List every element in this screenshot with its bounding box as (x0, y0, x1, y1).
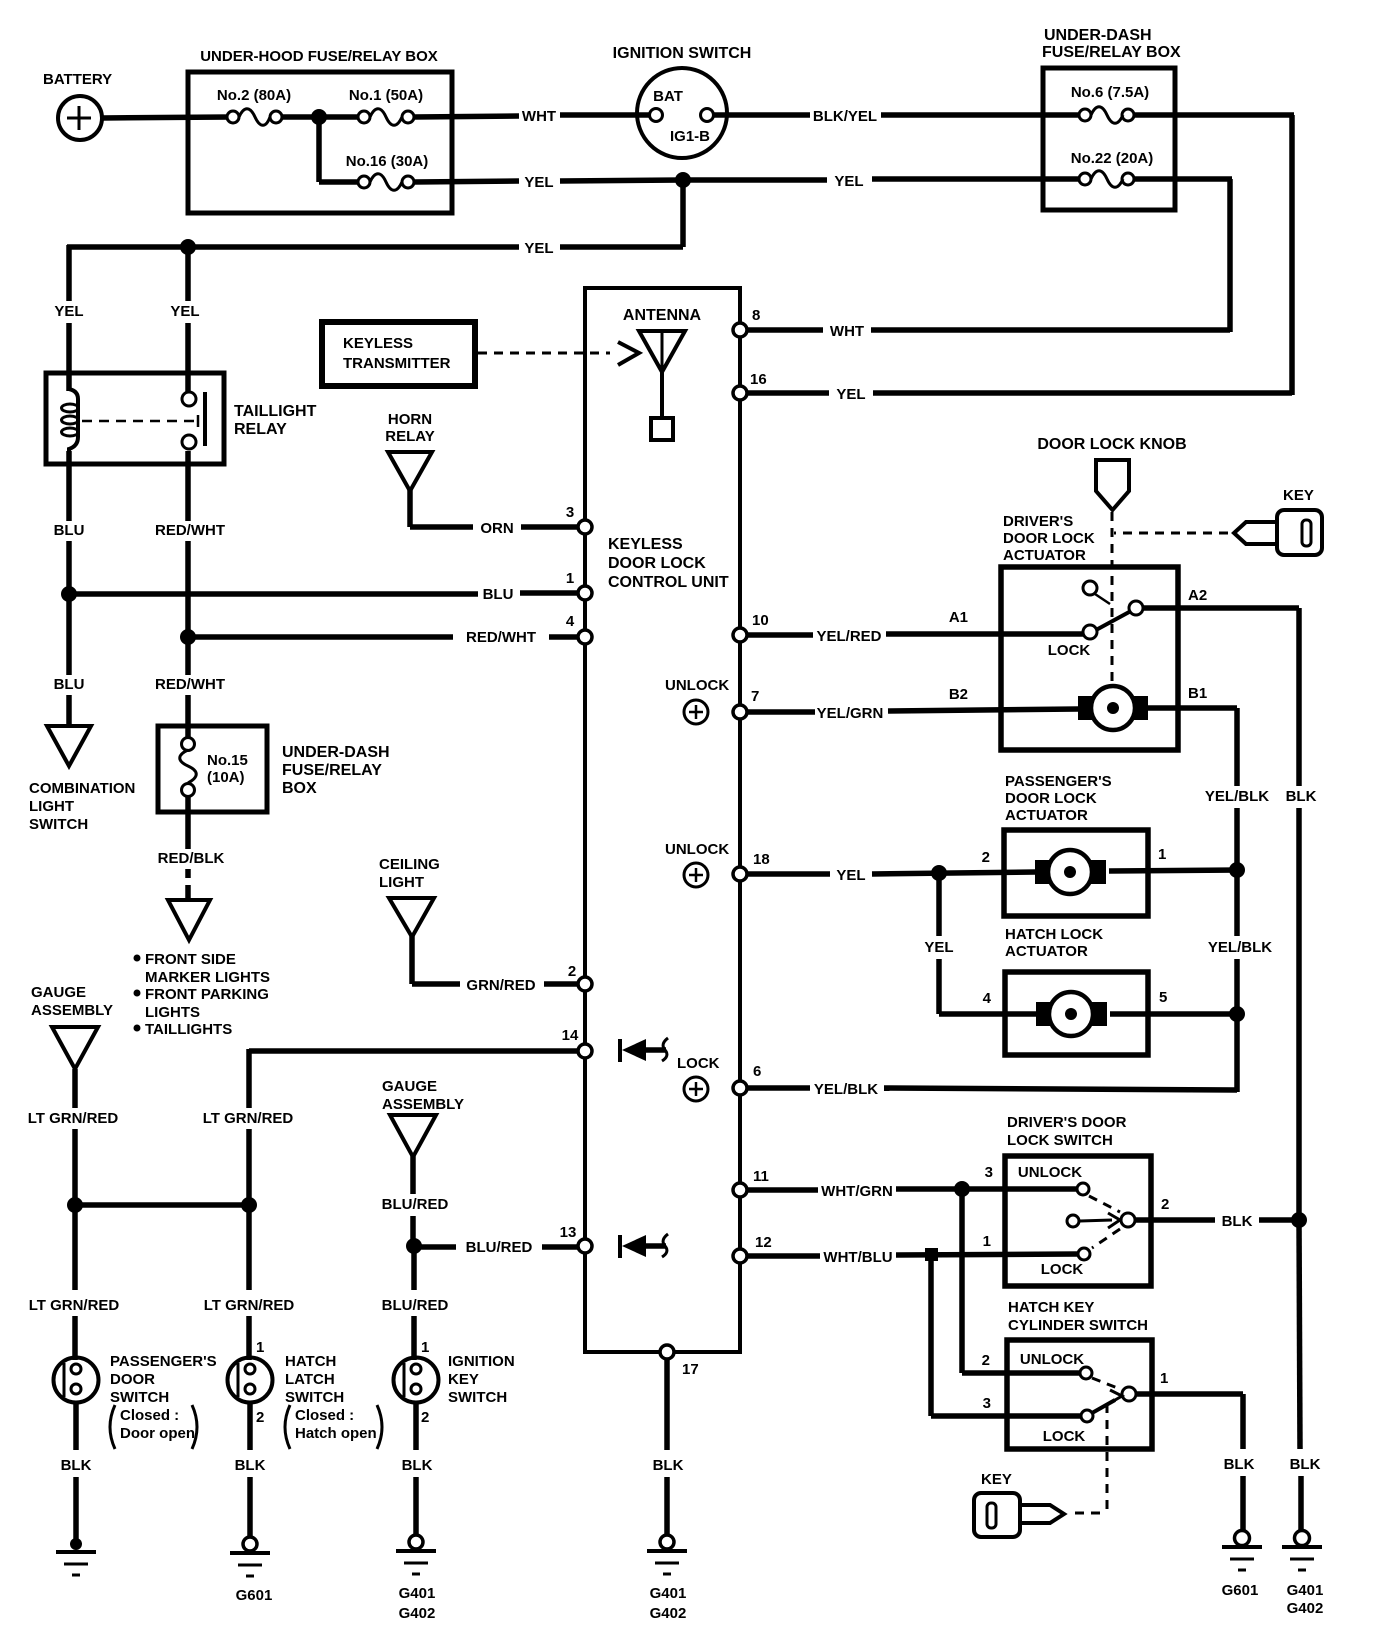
svg-text:UNDER-DASH: UNDER-DASH (282, 744, 390, 761)
unlock symbol lower (665, 841, 729, 887)
wire RED/WHT relay to junction (155, 451, 225, 639)
svg-text:1: 1 (1160, 1370, 1168, 1387)
under-dash fuse/relay box No.15 (158, 726, 390, 812)
svg-text:BLK: BLK (1290, 1456, 1321, 1473)
svg-text:CONTROL UNIT: CONTROL UNIT (608, 574, 729, 591)
svg-text:BLK/YEL: BLK/YEL (813, 108, 877, 125)
svg-text:YEL/RED: YEL/RED (816, 628, 881, 645)
svg-text:(10A): (10A) (207, 769, 245, 786)
svg-text:Door open: Door open (120, 1425, 195, 1442)
wire passenger actuator pin 1 to YEL/BLK vertical (1109, 870, 1240, 871)
svg-text:LOCK: LOCK (677, 1055, 720, 1072)
motor driver's door lock (1078, 686, 1148, 730)
fuse No.15 (180, 738, 197, 797)
svg-text:DRIVER'S DOOR: DRIVER'S DOOR (1007, 1114, 1127, 1131)
svg-text:CEILING: CEILING (379, 856, 440, 873)
antenna (623, 307, 702, 440)
wire YEL down to taillight relay contact (170, 247, 199, 392)
svg-text:2: 2 (421, 1409, 429, 1426)
svg-text:8: 8 (752, 307, 760, 324)
svg-text:4: 4 (566, 613, 575, 630)
keyless transmitter (322, 322, 475, 386)
unlock symbol upper (665, 677, 729, 724)
wire riser WHT/GRN to hatch key switch unlock (962, 1189, 1080, 1373)
svg-text:UNLOCK: UNLOCK (665, 677, 729, 694)
svg-text:RELAY: RELAY (385, 428, 434, 445)
wire YEL junction down and left (67, 180, 683, 257)
wire BLU to pin 1 (69, 586, 578, 603)
svg-text:KEY: KEY (1283, 487, 1314, 504)
svg-text:YEL: YEL (54, 303, 83, 320)
svg-text:GAUGE: GAUGE (31, 984, 86, 1001)
svg-text:10: 10 (752, 612, 769, 629)
ceiling light (379, 856, 440, 937)
svg-text:No.2 (80A): No.2 (80A) (217, 87, 291, 104)
node left junction (67, 1197, 83, 1213)
svg-text:YEL: YEL (924, 939, 953, 956)
node junction under-hood (311, 109, 327, 125)
ground passenger door switch (56, 1538, 96, 1575)
pin 13 (560, 1224, 592, 1253)
svg-text:BLK: BLK (1286, 788, 1317, 805)
pin 6 (733, 1063, 761, 1095)
wire WHT fuse1 to ignition switch (414, 108, 650, 125)
wire YEL branch down to hatch actuator (924, 873, 1036, 1014)
svg-text:BLU/RED: BLU/RED (466, 1239, 533, 1256)
node BLU junction (61, 586, 77, 602)
svg-text:LT GRN/RED: LT GRN/RED (29, 1297, 120, 1314)
fuse No.2 (80A) (217, 87, 291, 125)
svg-text:CYLINDER SWITCH: CYLINDER SWITCH (1008, 1317, 1148, 1334)
svg-text:KEY: KEY (448, 1371, 479, 1388)
svg-text:LIGHT: LIGHT (379, 874, 424, 891)
wire GRN/RED ceiling light to pin 2 (412, 935, 578, 994)
svg-text:TRANSMITTER: TRANSMITTER (343, 355, 451, 372)
svg-text:No.6 (7.5A): No.6 (7.5A) (1071, 84, 1149, 101)
svg-text:LOCK: LOCK (1041, 1261, 1084, 1278)
node right junction (241, 1197, 257, 1213)
svg-text:G401: G401 (399, 1585, 436, 1602)
wire BLK hatch latch to ground (235, 1403, 266, 1537)
svg-text:WHT: WHT (830, 323, 864, 340)
svg-text:A1: A1 (949, 609, 968, 626)
ground G401 G402 pin 17 (647, 1535, 687, 1622)
svg-text:3: 3 (566, 504, 574, 521)
svg-text:FUSE/RELAY: FUSE/RELAY (282, 762, 382, 779)
svg-text:RED/WHT: RED/WHT (155, 522, 225, 539)
svg-text:5: 5 (1159, 989, 1167, 1006)
svg-text:BLK: BLK (402, 1457, 433, 1474)
svg-text:LT GRN/RED: LT GRN/RED (28, 1110, 119, 1127)
dashed link key cylinder to key (1070, 1404, 1107, 1513)
svg-text:TAILLIGHT: TAILLIGHT (234, 403, 317, 420)
hatch key cylinder switch (982, 1299, 1169, 1449)
wire to pin 14 (249, 1048, 578, 1054)
lock symbol (677, 1055, 720, 1101)
wire BLK/YEL ignition to under-dash box (713, 108, 1079, 125)
svg-text:IG1-B: IG1-B (670, 128, 710, 145)
wire hatch actuator pin 5 to YEL/BLK vertical (1110, 1011, 1240, 1017)
svg-text:BATTERY: BATTERY (43, 71, 112, 88)
wire RED/WHT to pin 4 (188, 629, 578, 646)
pin 12 (733, 1234, 772, 1263)
svg-text:2: 2 (568, 963, 576, 980)
wire fuse22 down to pin 8 WHT (747, 179, 1232, 340)
wire YEL fuse16 to right (414, 173, 1079, 191)
svg-text:KEYLESS: KEYLESS (343, 335, 413, 352)
svg-text:BLK: BLK (1224, 1456, 1255, 1473)
svg-text:G401: G401 (650, 1585, 687, 1602)
svg-text:2: 2 (982, 1352, 990, 1369)
svg-text:LOCK: LOCK (1048, 642, 1091, 659)
svg-text:ACTUATOR: ACTUATOR (1005, 807, 1088, 824)
svg-text:11: 11 (753, 1168, 769, 1185)
pin 18 (733, 851, 770, 881)
svg-text:HATCH: HATCH (285, 1353, 336, 1370)
svg-text:G402: G402 (399, 1605, 436, 1622)
dashed link knob to actuator motor (1111, 512, 1114, 702)
svg-text:DOOR LOCK: DOOR LOCK (1005, 790, 1097, 807)
door lock knob (1037, 436, 1186, 510)
svg-text:BLU/RED: BLU/RED (382, 1297, 449, 1314)
svg-text:BLU/RED: BLU/RED (382, 1196, 449, 1213)
wire riser WHT/BLU to hatch key switch lock (931, 1254, 1081, 1416)
motor hatch lock (1036, 992, 1107, 1036)
svg-text:LT GRN/RED: LT GRN/RED (203, 1110, 294, 1127)
svg-text:G402: G402 (650, 1605, 687, 1622)
pin 11 (733, 1168, 769, 1197)
svg-text:BLK: BLK (1222, 1213, 1253, 1230)
wire fuse2 to node (282, 114, 319, 120)
svg-text:FRONT SIDE: FRONT SIDE (145, 951, 236, 968)
wire junction bar (75, 1202, 249, 1208)
svg-text:KEYLESS: KEYLESS (608, 536, 683, 553)
ground G401 G402 right (1282, 1531, 1323, 1618)
svg-text:UNDER-HOOD FUSE/RELAY BOX: UNDER-HOOD FUSE/RELAY BOX (200, 48, 438, 65)
svg-text:YEL: YEL (170, 303, 199, 320)
svg-text:1: 1 (1158, 846, 1166, 863)
svg-text:ACTUATOR: ACTUATOR (1005, 943, 1088, 960)
ignition key switch (394, 1339, 515, 1426)
svg-text:HORN: HORN (388, 411, 432, 428)
svg-text:No.1 (50A): No.1 (50A) (349, 87, 423, 104)
wire RED/BLK to lights arrow (158, 796, 225, 898)
wire A2 to BLK vertical (1143, 608, 1317, 1222)
svg-text:12: 12 (755, 1234, 772, 1251)
svg-text:7: 7 (751, 688, 759, 705)
svg-text:DOOR LOCK KNOB: DOOR LOCK KNOB (1037, 436, 1186, 453)
svg-text:BLK: BLK (61, 1457, 92, 1474)
svg-text:LOCK SWITCH: LOCK SWITCH (1007, 1132, 1113, 1149)
ground G401 G402 ignition key switch (396, 1535, 436, 1622)
pin 17 (660, 1345, 699, 1378)
wire BLK right vertical to ground (1290, 1220, 1321, 1531)
wire battery to under-hood box (102, 117, 230, 118)
svg-text:YEL: YEL (524, 174, 553, 191)
ground G601 right (1222, 1531, 1262, 1600)
gauge assembly (left) (31, 984, 113, 1069)
svg-text:WHT/BLU: WHT/BLU (823, 1249, 892, 1266)
battery (43, 71, 112, 140)
svg-text:SWITCH: SWITCH (448, 1389, 507, 1406)
svg-text:2: 2 (982, 849, 990, 866)
node BLK junction right vertical (1291, 1212, 1307, 1228)
pin 8 (733, 307, 760, 337)
pin 16 (733, 371, 767, 400)
svg-text:1: 1 (566, 570, 574, 587)
passenger's door switch (54, 1353, 217, 1449)
svg-text:3: 3 (985, 1164, 993, 1181)
pin 7 (733, 688, 759, 719)
wire LT GRN/RED left vertical (28, 1069, 119, 1207)
wire BLK pin 17 to ground (653, 1359, 684, 1535)
svg-text:FUSE/RELAY BOX: FUSE/RELAY BOX (1042, 44, 1181, 61)
svg-text:1: 1 (983, 1233, 991, 1250)
svg-text:IGNITION SWITCH: IGNITION SWITCH (613, 45, 752, 62)
svg-text:ORN: ORN (480, 520, 513, 537)
diode at pin 13 (620, 1234, 668, 1258)
svg-text:2: 2 (1161, 1196, 1169, 1213)
svg-text:No.15: No.15 (207, 752, 248, 769)
svg-text:2: 2 (256, 1409, 264, 1426)
svg-text:ACTUATOR: ACTUATOR (1003, 547, 1086, 564)
svg-text:LOCK: LOCK (1043, 1428, 1086, 1445)
svg-text:YEL/GRN: YEL/GRN (817, 705, 884, 722)
svg-text:14: 14 (562, 1027, 579, 1044)
svg-text:ASSEMBLY: ASSEMBLY (382, 1096, 464, 1113)
fuse No.6 (7.5A) (1071, 84, 1149, 123)
diode at pin 14 (620, 1038, 668, 1062)
motor passenger door lock (1035, 850, 1106, 894)
wire YEL/GRN pin 7 to actuator B2 (747, 705, 1079, 722)
keyless door lock control unit (585, 288, 740, 1352)
svg-text:KEY: KEY (981, 1471, 1012, 1488)
ground G601 hatch latch (230, 1537, 272, 1604)
svg-text:BLK: BLK (653, 1457, 684, 1474)
node YEL branch junction (931, 865, 947, 881)
horn relay (385, 411, 434, 491)
svg-text:BLU: BLU (54, 522, 85, 539)
svg-text:SWITCH: SWITCH (29, 816, 88, 833)
svg-text:Closed :: Closed : (120, 1407, 179, 1424)
pin 10 (733, 612, 769, 642)
svg-text:LIGHTS: LIGHTS (145, 1004, 200, 1021)
wire RED/WHT down to fuse No.15 (155, 637, 225, 738)
svg-text:GRN/RED: GRN/RED (466, 977, 535, 994)
arrow to front lights circuits (134, 900, 271, 1038)
svg-text:COMBINATION: COMBINATION (29, 780, 135, 797)
svg-text:TAILLIGHTS: TAILLIGHTS (145, 1021, 232, 1038)
node YEL/BLK junction passenger (1229, 862, 1245, 878)
node RED/WHT junction (180, 629, 196, 645)
wire LT GRN/RED riser to pin 14 line (203, 1049, 294, 1205)
svg-text:IGNITION: IGNITION (448, 1353, 515, 1370)
svg-text:BLU: BLU (483, 586, 514, 603)
svg-text:PASSENGER'S: PASSENGER'S (110, 1353, 217, 1370)
wire BLU/RED down to ignition key switch (382, 1246, 449, 1360)
svg-text:6: 6 (753, 1063, 761, 1080)
fuse No.1 (50A) (319, 87, 423, 125)
svg-text:13: 13 (560, 1224, 577, 1241)
fuse No.16 (30A) (319, 114, 428, 190)
hatch latch switch (228, 1339, 383, 1449)
wire BLU/RED to pin 13 (414, 1239, 578, 1256)
svg-text:RED/WHT: RED/WHT (155, 676, 225, 693)
node junction on YEL run (180, 239, 196, 255)
svg-text:ANTENNA: ANTENNA (623, 307, 702, 324)
driver's door lock switch (983, 1114, 1170, 1286)
pin 14 (562, 1027, 592, 1058)
svg-text:BLK: BLK (235, 1457, 266, 1474)
svg-text:MARKER LIGHTS: MARKER LIGHTS (145, 969, 270, 986)
svg-text:SWITCH: SWITCH (110, 1389, 169, 1406)
svg-text:DOOR LOCK: DOOR LOCK (1003, 530, 1095, 547)
dashed link key to knob line (1114, 532, 1228, 535)
combination light switch (29, 726, 135, 833)
wire B1 to YEL/BLK vertical (1147, 708, 1269, 872)
svg-text:17: 17 (682, 1361, 699, 1378)
wire WHT/GRN pin 11 to switch unlock (747, 1183, 1077, 1200)
wire BLU down to combination light switch (54, 594, 85, 726)
wire YEL/RED pin 10 to actuator A1 (747, 628, 1084, 645)
svg-text:G402: G402 (1287, 1600, 1324, 1617)
svg-text:G401: G401 (1287, 1582, 1324, 1599)
key (bottom) (974, 1471, 1064, 1537)
svg-text:RELAY: RELAY (234, 421, 287, 438)
svg-text:BOX: BOX (282, 780, 317, 797)
svg-text:4: 4 (983, 990, 992, 1007)
svg-text:WHT/GRN: WHT/GRN (821, 1183, 893, 1200)
pin 1 (566, 570, 592, 600)
passenger's door lock actuator (982, 773, 1167, 916)
svg-text:UNLOCK: UNLOCK (665, 841, 729, 858)
svg-text:BLU: BLU (54, 676, 85, 693)
driver's door lock actuator (949, 513, 1207, 750)
node WHT/BLU junction (925, 1248, 938, 1261)
wire BLU relay to junction (54, 451, 85, 596)
svg-text:3: 3 (983, 1395, 991, 1412)
node YEL junction below ignition (675, 172, 691, 188)
pin 3 (566, 504, 592, 534)
svg-text:YEL: YEL (836, 867, 865, 884)
svg-text:GAUGE: GAUGE (382, 1078, 437, 1095)
wire ORN horn relay to pin 3 (410, 489, 578, 537)
svg-text:RED/WHT: RED/WHT (466, 629, 536, 646)
svg-text:DRIVER'S: DRIVER'S (1003, 513, 1073, 530)
dashed arrow transmitter to antenna (478, 342, 639, 365)
svg-text:YEL/BLK: YEL/BLK (814, 1081, 878, 1098)
svg-text:HATCH KEY: HATCH KEY (1008, 1299, 1094, 1316)
svg-text:No.22 (20A): No.22 (20A) (1071, 150, 1154, 167)
wire BLK ignition key switch to ground (402, 1403, 433, 1535)
svg-text:UNLOCK: UNLOCK (1020, 1351, 1084, 1368)
hatch lock actuator (983, 926, 1168, 1055)
svg-text:LIGHT: LIGHT (29, 798, 74, 815)
svg-text:HATCH LOCK: HATCH LOCK (1005, 926, 1103, 943)
svg-text:UNDER-DASH: UNDER-DASH (1044, 27, 1152, 44)
svg-text:1: 1 (421, 1339, 429, 1356)
key (top right) (1234, 487, 1322, 555)
svg-text:No.16 (30A): No.16 (30A) (346, 153, 429, 170)
svg-text:DOOR: DOOR (110, 1371, 155, 1388)
wire hatch key pin 1 to ground G601 (1136, 1394, 1255, 1531)
svg-text:B1: B1 (1188, 685, 1207, 702)
wire fuse6 down to pin 16 YEL (747, 115, 1294, 403)
svg-text:18: 18 (753, 851, 770, 868)
svg-text:YEL: YEL (834, 173, 863, 190)
svg-text:LT GRN/RED: LT GRN/RED (204, 1297, 295, 1314)
svg-text:YEL/BLK: YEL/BLK (1208, 939, 1272, 956)
svg-text:FRONT PARKING: FRONT PARKING (145, 986, 269, 1003)
wire YEL pin 18 to passenger actuator (747, 867, 1036, 884)
svg-text:1: 1 (256, 1339, 264, 1356)
svg-text:ASSEMBLY: ASSEMBLY (31, 1002, 113, 1019)
wire LT GRN/RED down to hatch latch switch (204, 1205, 295, 1360)
svg-text:DOOR LOCK: DOOR LOCK (608, 555, 706, 572)
wire LT GRN/RED down to passenger door switch (29, 1205, 120, 1360)
svg-text:YEL/BLK: YEL/BLK (1205, 788, 1269, 805)
svg-text:UNLOCK: UNLOCK (1018, 1164, 1082, 1181)
ignition switch (613, 45, 752, 158)
svg-text:PASSENGER'S: PASSENGER'S (1005, 773, 1112, 790)
wire YEL/BLK vertical segment (1208, 870, 1272, 1092)
fuse No.22 (20A) (1071, 150, 1154, 187)
svg-text:Hatch open: Hatch open (295, 1425, 377, 1442)
pin 2 (568, 963, 592, 991)
under-hood fuse/relay box (188, 48, 452, 213)
node BLU/RED junction (406, 1238, 422, 1254)
gauge assembly (center) (382, 1078, 464, 1157)
wire BLK passenger switch to ground (61, 1403, 92, 1542)
svg-text:B2: B2 (949, 686, 968, 703)
wire YEL down to taillight relay coil (54, 245, 83, 391)
wire BLK switch pin 2 to right vertical (1135, 1213, 1299, 1230)
svg-text:WHT: WHT (522, 108, 556, 125)
wire YEL/BLK to pin 6 (747, 1081, 1237, 1098)
node YEL/BLK junction hatch (1229, 1006, 1245, 1022)
wire WHT/BLU pin 12 to switch lock (747, 1249, 1078, 1266)
svg-text:G601: G601 (236, 1587, 273, 1604)
svg-text:BAT: BAT (653, 88, 683, 105)
node WHT/GRN junction (954, 1181, 970, 1197)
svg-text:A2: A2 (1188, 587, 1207, 604)
svg-text:SWITCH: SWITCH (285, 1389, 344, 1406)
svg-text:YEL: YEL (524, 240, 553, 257)
svg-text:16: 16 (750, 371, 767, 388)
svg-text:YEL: YEL (836, 386, 865, 403)
under-dash fuse/relay box (top right) (1042, 27, 1181, 210)
svg-text:G601: G601 (1222, 1582, 1259, 1599)
pin 4 (566, 613, 592, 644)
wire BLU/RED gauge to junction (382, 1156, 449, 1248)
svg-text:Closed :: Closed : (295, 1407, 354, 1424)
svg-text:RED/BLK: RED/BLK (158, 850, 225, 867)
taillight relay (46, 373, 317, 464)
svg-text:LATCH: LATCH (285, 1371, 335, 1388)
